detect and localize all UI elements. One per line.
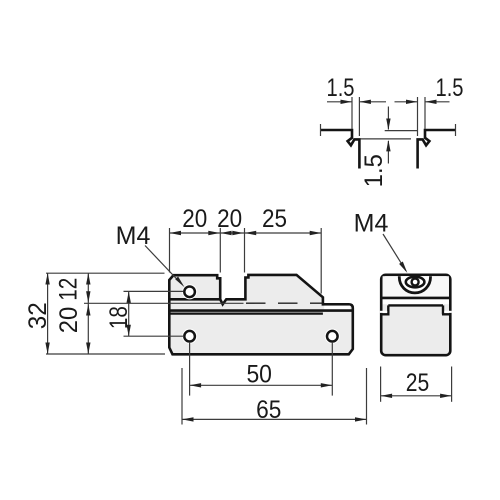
- svg-text:20: 20: [182, 205, 207, 233]
- svg-text:18: 18: [105, 306, 133, 329]
- svg-text:25: 25: [262, 205, 287, 233]
- svg-text:1.5: 1.5: [327, 74, 355, 102]
- svg-text:20: 20: [217, 205, 242, 233]
- svg-text:65: 65: [256, 396, 281, 424]
- svg-text:1.5: 1.5: [360, 154, 388, 187]
- svg-text:M4: M4: [354, 210, 389, 238]
- svg-text:20: 20: [55, 307, 83, 334]
- svg-text:12: 12: [55, 278, 83, 301]
- svg-text:M4: M4: [116, 222, 151, 250]
- svg-text:32: 32: [24, 302, 52, 329]
- svg-text:50: 50: [246, 361, 272, 389]
- svg-text:25: 25: [406, 369, 430, 397]
- svg-text:1.5: 1.5: [436, 74, 464, 102]
